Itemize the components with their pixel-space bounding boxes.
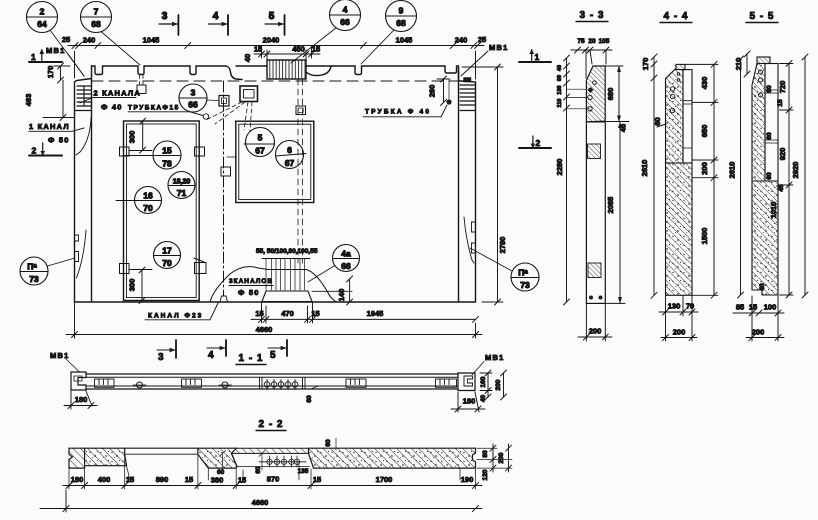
svg-text:130: 130 (668, 302, 681, 311)
stem below notch x141 (140, 75, 144, 86)
cut mark 2 right (519, 147, 551, 149)
channel dash-dot line x223 (223, 81, 225, 296)
svg-text:1045: 1045 (396, 36, 413, 45)
svg-text:ТРУБКА Ф 40: ТРУБКА Ф 40 (365, 109, 431, 116)
left end block ladder MB1 (75, 86, 92, 111)
svg-text:200: 200 (673, 328, 686, 337)
svg-text:2040: 2040 (263, 36, 280, 45)
svg-text:ТРУБКАФ15: ТРУБКАФ15 (128, 105, 180, 112)
svg-text:2280: 2280 (555, 159, 564, 176)
svg-text:210: 210 (734, 58, 743, 71)
svg-text:15: 15 (254, 45, 262, 54)
chord lines circles left window (124, 155, 154, 157)
outer face strip (765, 64, 778, 182)
svg-text:3 - 3: 3 - 3 (579, 10, 604, 21)
outer face strip (683, 70, 692, 163)
plinth (262, 291, 312, 302)
svg-text:1: 1 (535, 52, 540, 62)
svg-text:60: 60 (306, 395, 313, 403)
svg-text:120: 120 (482, 469, 489, 480)
recess walls (232, 453, 238, 466)
svg-text:180: 180 (71, 475, 84, 484)
svg-text:70: 70 (162, 258, 172, 268)
bottom dims 130/70/200 (665, 296, 667, 341)
svg-text:680: 680 (606, 88, 615, 101)
svg-text:2: 2 (32, 146, 37, 156)
svg-text:67: 67 (285, 158, 295, 168)
circle 2/64 (27, 2, 58, 33)
svg-text:67: 67 (255, 146, 265, 156)
bottom dims 85/15/100 + 200 (751, 296, 753, 341)
box on channel pair below rib block (296, 106, 306, 115)
svg-text:1945: 1945 (367, 309, 384, 318)
left end anchor block (71, 372, 86, 390)
box below notch x141 (137, 85, 146, 94)
2610 left dim (740, 59, 742, 295)
top dimension line 25/240/1045/2040/1045/240/25 (68, 45, 484, 47)
svg-text:4: 4 (343, 5, 348, 15)
svg-text:400: 400 (98, 475, 111, 484)
svg-text:5: 5 (270, 350, 277, 361)
svg-text:15: 15 (255, 309, 263, 318)
svg-text:15: 15 (162, 146, 172, 156)
45 dim (606, 121, 630, 123)
svg-text:60: 60 (766, 85, 773, 93)
svg-text:15: 15 (311, 309, 319, 318)
svg-text:15: 15 (126, 475, 134, 484)
rebar dots (670, 87, 674, 91)
svg-text:200: 200 (495, 379, 502, 390)
svg-text:70: 70 (143, 203, 153, 213)
svg-text:2 - 2: 2 - 2 (258, 419, 283, 430)
140 dim right of plinth (312, 290, 352, 292)
left end block (69, 448, 85, 468)
svg-text:18,20: 18,20 (173, 179, 191, 186)
3-3 top hatched head (586, 66, 605, 122)
right dim column 720/920/1010 (788, 64, 790, 296)
svg-text:450: 450 (292, 45, 305, 54)
svg-text:260: 260 (428, 85, 437, 98)
2780 vertical dim right (497, 67, 499, 302)
left edge bracket recess (77, 230, 87, 278)
svg-text:1 КАНАЛ: 1 КАНАЛ (29, 122, 70, 131)
right edge bracket recess (464, 217, 474, 263)
svg-text:463: 463 (24, 94, 33, 107)
right end anchor block MB1 (458, 373, 475, 391)
right end block ladder (460, 85, 476, 111)
680 dim (618, 66, 620, 122)
svg-text:300: 300 (128, 279, 137, 292)
svg-text:2780: 2780 (498, 237, 507, 254)
leader lines to stack dims (567, 88, 588, 90)
2280 vertical dim far right + small stack (566, 58, 568, 302)
3-3 lower shaft (586, 122, 605, 304)
phi anchors group (260, 377, 306, 389)
svg-text:15: 15 (313, 475, 321, 484)
svg-text:2: 2 (536, 138, 541, 148)
svg-text:2610: 2610 (640, 160, 649, 177)
svg-text:40: 40 (759, 283, 766, 291)
svg-text:5 - 5: 5 - 5 (749, 11, 774, 22)
svg-text:2920: 2920 (791, 162, 800, 179)
LEFT WINDOW (door opening) (124, 121, 200, 301)
svg-text:200: 200 (589, 327, 602, 336)
rebar dots (759, 70, 763, 74)
bottom sub dims 15/470/15/1945 (251, 318, 476, 320)
svg-text:2610: 2610 (728, 162, 737, 179)
260 vertical dim right (443, 79, 445, 103)
right side dims 80/200/120 (477, 447, 497, 449)
circle 18,20/71 (168, 172, 195, 199)
svg-text:160: 160 (480, 376, 487, 387)
svg-text:380: 380 (211, 476, 224, 485)
svg-text:КАНАЛ Ф23: КАНАЛ Ф23 (148, 313, 203, 320)
circle 4/66 (330, 0, 361, 31)
circle IIa/73 left (20, 257, 48, 285)
svg-text:190: 190 (461, 475, 474, 484)
463 vertical dim (62, 80, 64, 118)
svg-text:68: 68 (91, 19, 101, 29)
cap (757, 57, 770, 64)
svg-text:5: 5 (269, 11, 276, 22)
svg-text:20: 20 (588, 38, 596, 45)
svg-text:4а: 4а (341, 249, 351, 259)
svg-text:180: 180 (463, 397, 476, 406)
svg-text:60: 60 (557, 75, 563, 81)
svg-text:430: 430 (700, 77, 709, 90)
svg-text:135: 135 (298, 468, 309, 475)
svg-text:200: 200 (700, 162, 709, 175)
left flange segment (85, 448, 127, 466)
svg-text:66: 66 (188, 100, 198, 110)
channel box at x225 y170 (221, 167, 231, 176)
300 dim window top (142, 121, 144, 150)
recess floor line (237, 466, 310, 468)
trubka f40 dot right (446, 99, 451, 104)
svg-text:15: 15 (777, 99, 784, 107)
svg-text:9: 9 (399, 6, 404, 16)
svg-text:40: 40 (557, 65, 563, 71)
right bracket notches (472, 222, 476, 253)
svg-text:70: 70 (686, 302, 694, 311)
svg-text:1700: 1700 (376, 475, 393, 484)
svg-text:140: 140 (337, 289, 346, 302)
svg-text:40: 40 (243, 54, 252, 62)
section marks 3 4 5 lower (157, 340, 287, 363)
lower full bar (666, 163, 693, 295)
60 dim under phi group (311, 386, 318, 389)
panel top edge with notches (92, 66, 227, 75)
speckles overlay (85, 448, 127, 466)
upper hatched bar (666, 68, 684, 163)
channel pair x298-303 dashed (298, 79, 303, 263)
panel field right edge (458, 67, 460, 302)
svg-text:68: 68 (396, 18, 406, 28)
svg-text:7: 7 (94, 7, 99, 17)
svg-text:75: 75 (577, 38, 585, 45)
right big hatched part with end profile (309, 448, 476, 468)
window clips (120, 147, 207, 274)
panel field left edge (91, 66, 93, 302)
right end block outer edge (459, 67, 476, 302)
BOTTOM HUMP 3 channels (210, 267, 268, 302)
svg-text:Ф 50: Ф 50 (238, 288, 260, 297)
wavy transition at x230 (226, 66, 242, 80)
svg-text:2: 2 (40, 7, 45, 17)
svg-text:МВ1: МВ1 (50, 351, 69, 360)
svg-text:Ф 50: Ф 50 (48, 136, 70, 145)
svg-text:920: 920 (778, 148, 787, 161)
svg-text:4: 4 (208, 350, 215, 361)
rib block (450 channel zone) (267, 60, 306, 79)
svg-text:3: 3 (158, 352, 165, 363)
svg-text:15: 15 (185, 475, 193, 484)
svg-text:4660: 4660 (256, 325, 273, 334)
svg-text:64: 64 (37, 19, 47, 29)
left channel curve (1 kanal f50) (76, 118, 91, 155)
svg-text:890: 890 (156, 475, 169, 484)
svg-text:71: 71 (177, 188, 187, 198)
4660 main dim (66, 334, 482, 336)
svg-text:55, 50/100,80,100,55: 55, 50/100,80,100,55 (256, 248, 318, 255)
svg-text:15: 15 (749, 303, 757, 312)
svg-text:МВ1: МВ1 (489, 43, 508, 52)
bottom dots (589, 296, 593, 300)
svg-text:130: 130 (557, 85, 563, 94)
circle 17/70 (154, 242, 181, 269)
svg-text:5: 5 (258, 133, 263, 143)
small circles (137, 382, 143, 388)
svg-text:3КАНАЛОВ: 3КАНАЛОВ (229, 278, 273, 285)
svg-text:Ф 40: Ф 40 (101, 103, 123, 112)
svg-text:3: 3 (162, 11, 169, 22)
svg-text:73: 73 (29, 274, 39, 284)
svg-text:66: 66 (341, 261, 351, 271)
curve right of rib block (306, 66, 331, 76)
box 3/66 on channel line (219, 96, 229, 107)
channel foot (220, 296, 228, 302)
svg-text:73: 73 (520, 280, 530, 290)
svg-text:4: 4 (213, 11, 220, 22)
phi anchors in recess (259, 456, 306, 467)
300 dim window bottom (141, 270, 143, 301)
big electric box (240, 86, 258, 102)
lower full bar with foot (752, 181, 778, 295)
svg-text:170: 170 (46, 66, 55, 79)
svg-text:85: 85 (736, 303, 744, 312)
svg-text:2085: 2085 (606, 197, 615, 214)
circle 5/67 (246, 128, 275, 157)
svg-text:870: 870 (267, 475, 280, 484)
2610 left dim (653, 64, 655, 295)
thick part left of recess (198, 448, 237, 468)
svg-text:60: 60 (766, 132, 773, 140)
svg-text:300: 300 (128, 131, 137, 144)
circle 3/66 (179, 84, 207, 112)
circle 7/68 (81, 2, 112, 33)
svg-text:6: 6 (287, 145, 292, 155)
panel bottom edge (75, 301, 476, 303)
circle IIa/73 right (511, 263, 539, 291)
svg-text:25: 25 (62, 35, 70, 44)
svg-text:66: 66 (340, 17, 350, 27)
circle 6/67 (276, 141, 304, 169)
svg-text:240: 240 (455, 36, 468, 45)
connector window left edge to channel (227, 156, 236, 158)
svg-text:40: 40 (480, 395, 487, 403)
svg-text:180: 180 (75, 395, 88, 404)
svg-text:240: 240 (83, 36, 96, 45)
4660 dim (40, 508, 482, 510)
svg-text:100: 100 (764, 303, 777, 312)
left bracket notches (75, 235, 79, 262)
RIGHT WINDOW (236, 121, 314, 202)
60 pointer inside recess left (222, 453, 224, 470)
web thin part (125, 447, 198, 449)
svg-text:200: 200 (752, 328, 765, 337)
svg-text:650: 650 (700, 125, 709, 138)
cap (676, 64, 685, 69)
svg-text:60: 60 (255, 466, 262, 474)
svg-text:3: 3 (191, 88, 196, 98)
strip body (86, 373, 458, 375)
170 vertical dim top-left (60, 66, 62, 80)
svg-text:170: 170 (641, 58, 650, 71)
svg-text:4 - 4: 4 - 4 (663, 11, 688, 22)
svg-text:1: 1 (31, 52, 36, 62)
embedded hatched plates (588, 144, 601, 159)
circle 16/70 (135, 187, 162, 214)
svg-text:60: 60 (325, 439, 332, 447)
svg-text:80: 80 (482, 450, 489, 458)
svg-text:1 - 1: 1 - 1 (238, 353, 263, 364)
circle 15/78 (153, 141, 181, 169)
boxes with rungs (95, 379, 457, 387)
cut mark 2 left (29, 155, 62, 157)
svg-text:1010: 1010 (769, 202, 778, 219)
svg-text:17: 17 (162, 246, 172, 256)
right side 160/40/200 dims (487, 373, 489, 397)
recess top strip (232, 448, 309, 453)
hidden dashed line under top edge (92, 80, 458, 82)
svg-text:200: 200 (498, 452, 505, 463)
svg-text:2 КАНАЛА: 2 КАНАЛА (94, 89, 141, 98)
circle 9/68 (386, 1, 417, 32)
svg-text:1500: 1500 (700, 228, 709, 245)
MB1 anchor blob top right (464, 78, 471, 82)
dashed rays from big box (206, 102, 252, 131)
svg-text:720: 720 (778, 81, 787, 94)
svg-text:1045: 1045 (143, 36, 160, 45)
cut mark 1 right (519, 61, 551, 63)
svg-text:4660: 4660 (252, 498, 269, 507)
svg-text:105: 105 (599, 38, 610, 45)
2085 dim (619, 122, 621, 304)
cut mark 1 left (29, 61, 62, 63)
svg-text:МВ1: МВ1 (485, 353, 504, 362)
bottom 200 dim (585, 304, 587, 341)
2920 far right dim (804, 57, 806, 295)
svg-text:60: 60 (766, 172, 773, 180)
svg-text:110: 110 (557, 99, 563, 108)
section marks 3 4 5 top (159, 11, 285, 35)
svg-text:15: 15 (238, 476, 246, 485)
180 dims both ends (70, 391, 72, 409)
svg-text:78: 78 (162, 159, 172, 169)
svg-text:25: 25 (478, 35, 486, 44)
svg-text:16: 16 (143, 191, 153, 201)
hump rib block (268, 269, 306, 271)
left end block outer edge (75, 79, 92, 303)
upper hatched bar (752, 64, 765, 182)
sub dim 15/450/15 above rib block (254, 53, 320, 55)
right dim column 430/650/200/1500 (713, 64, 715, 295)
circle 4a/66 (333, 245, 360, 272)
dims row (63, 485, 482, 487)
svg-text:470: 470 (281, 309, 294, 318)
rebar dots in head (593, 81, 597, 85)
